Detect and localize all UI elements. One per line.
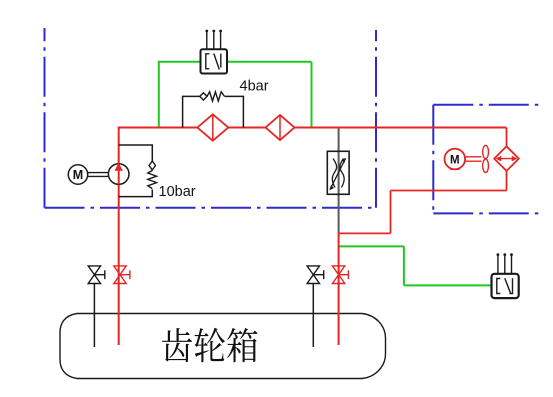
wire: red cooler loop right vertical lower [506,171,508,191]
tank 齿轮箱 gearbox body [60,314,386,379]
thermo switch S2 lead dots [497,253,500,256]
bypass relief 4bar spring [207,92,225,101]
flow control valve symbol [330,159,346,190]
filter F1 element line [212,114,214,140]
pressure switch S1 box [201,49,228,73]
svg-text:M: M [73,168,83,182]
wire: green signal to thermo switch [404,284,492,286]
thermo switch S2 leads [498,255,512,278]
wire: green signal lower tap horizontal [339,245,404,247]
valve V2 red gate valve [114,266,130,284]
relief valve 10bar poppet [149,161,155,170]
flow control valve box [327,151,349,194]
valve V3 black gate valve [307,266,324,284]
pump P1 arrow [115,163,123,171]
wire: red cooler return to drain junction [339,232,391,234]
pump P1 circle [108,164,129,185]
wire: green signal top horizontal [158,61,312,63]
wire: green signal top loop left vertical [158,62,160,128]
svg-text:10bar: 10bar [159,184,196,200]
fan motor M2 shaft [465,157,481,161]
filter F1 diamond [197,114,228,140]
valve V1 drain line [93,284,95,348]
svg-text:4bar: 4bar [240,79,269,95]
wire: red cooler return bottom horizontal [391,190,507,192]
pump P1 flow line [118,164,120,185]
wire: red pump riser vertical [118,127,120,346]
svg-text:M: M [450,154,460,166]
flow control valve arrowheads [330,158,346,190]
valve V4 red gate valve [332,266,348,284]
bypass relief 4bar loop wire [183,96,244,127]
cooler arrows [498,158,515,160]
thermo switch S2 contacts [497,278,513,294]
relief valve 10bar spring [148,171,157,189]
thermo switch S2 box [492,274,519,298]
cooler diamond [494,146,519,171]
wire: green signal top loop right vertical [311,62,313,128]
valve V1 black gate valve [88,266,105,284]
enclosure boundary left (blue dash-dot) [45,28,377,208]
fan blade lower [483,159,489,172]
wire: red main pressure line horizontal [119,127,507,129]
wire: gray drain line from flow valve [338,128,340,234]
fan motor M2 circle [445,149,466,170]
pressure switch S1 contacts [206,54,221,70]
wire: red drain vertical to tank [338,233,340,345]
label 齿轮箱 gearbox [162,328,258,363]
wire: green signal lower vertical [403,246,405,285]
fan motor M2 underline [450,168,460,170]
motor M1 circle [68,165,87,184]
filter F2 element line [279,115,281,140]
filter F2 diamond [266,115,295,140]
motor M1 shaft coupling [88,173,108,177]
bypass relief 4bar poppet [200,93,207,100]
pressure switch S1 lead dots [205,30,208,33]
valve V3 drain line [312,284,314,348]
enclosure boundary right fan unit (blue dash-dot) [433,105,538,214]
wire: red cooler loop right vertical upper [506,128,508,148]
pressure switch S1 leads [207,31,221,53]
fan blade upper [483,145,489,158]
relief valve 10bar loop wire [119,145,153,197]
wire: red cooler return vertical [390,191,392,234]
